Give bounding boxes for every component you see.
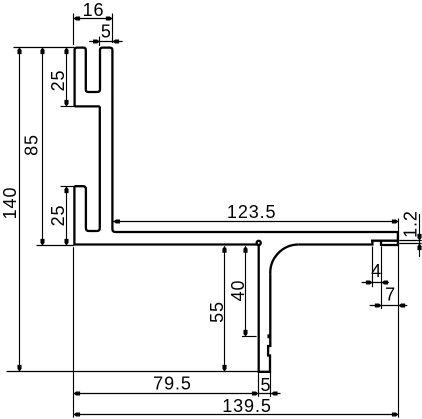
dimension 25 (upper fork depth) bbox=[48, 48, 69, 107]
extension line: above left prong bbox=[73, 14, 75, 46]
svg-text:79.5: 79.5 bbox=[153, 373, 192, 393]
profile: left prong shoulder bbox=[75, 105, 100, 107]
extension line: lower prong top tail bbox=[61, 186, 75, 188]
profile: junction circle at bar top-left bbox=[257, 241, 261, 245]
svg-text:25: 25 bbox=[48, 205, 68, 227]
extension line: top reference bbox=[14, 47, 75, 49]
svg-text:40: 40 bbox=[228, 280, 248, 302]
svg-text:4: 4 bbox=[371, 261, 382, 281]
profile: flange bottom (right part) and groove left wall bbox=[299, 241, 373, 245]
svg-text:5: 5 bbox=[261, 375, 272, 395]
svg-text:140: 140 bbox=[0, 187, 20, 220]
svg-text:25: 25 bbox=[48, 70, 68, 92]
extension line: bar left edge down (79.5 / 5) bbox=[258, 372, 260, 397]
dimension 139.5 bbox=[74, 396, 399, 416]
svg-text:85: 85 bbox=[22, 134, 42, 156]
svg-text:55: 55 bbox=[207, 301, 227, 323]
extension line: lip top (1.2) bbox=[399, 240, 421, 242]
extension line: bottom reference (140 / 55) bbox=[7, 371, 259, 373]
extension line: shoulder tail bbox=[61, 106, 77, 108]
profile: stem left edge, lower slot, lower prong top bbox=[74, 106, 99, 231]
extension line: profile left edge down (79.5 / 139.5) bbox=[73, 247, 75, 417]
dimension 79.5 bbox=[74, 373, 259, 395]
dimension 140 bbox=[0, 48, 22, 372]
extension line: groove left edge (4) bbox=[372, 247, 374, 288]
dimension 85 bbox=[22, 48, 45, 246]
dimension 1.2 bbox=[401, 210, 422, 257]
svg-text:139.5: 139.5 bbox=[222, 396, 272, 416]
profile: lip bottom bbox=[381, 244, 398, 246]
svg-text:123.5: 123.5 bbox=[227, 202, 277, 222]
profile: lip left wall bbox=[380, 240, 382, 246]
profile: groove / lip top line bbox=[371, 240, 398, 242]
dimension 5 (bottom bar width) bbox=[259, 375, 281, 396]
svg-text:1.2: 1.2 bbox=[401, 210, 421, 238]
svg-text:16: 16 bbox=[83, 0, 105, 20]
profile: fillet arc joining bar to flange bottom bbox=[270, 244, 298, 274]
dimension 4 bbox=[362, 261, 389, 284]
profile: left face and flange bottom (left part) bbox=[74, 186, 257, 244]
svg-text:7: 7 bbox=[385, 285, 396, 305]
extension line: bar right edge down (5) bbox=[270, 372, 272, 397]
dimension 123.5 bbox=[113, 202, 398, 224]
profile: top fork - left prong, upper slot, right prong, stem right edge, flange top, right end face bbox=[75, 48, 398, 247]
svg-text:5: 5 bbox=[101, 22, 112, 42]
dimension 7 bbox=[370, 285, 408, 308]
extension line: right prong left edge (5) bbox=[99, 37, 101, 47]
dimension 55 bbox=[207, 246, 227, 371]
profile: lower bar - left edge, bottom, right edge with steps bbox=[259, 245, 271, 371]
dimension 40 bbox=[228, 246, 248, 336]
extension line: flange right end down (123.5 / 7 / 139.5) bbox=[398, 219, 400, 418]
extension line: lip bottom (1.2) bbox=[399, 243, 421, 245]
dimension 25 (lower fork depth) bbox=[48, 187, 69, 246]
dimension 16 bbox=[74, 0, 113, 21]
extension line: above right prong bbox=[112, 14, 114, 44]
extension line: flange bottom left tail bbox=[37, 245, 75, 247]
extension line: lip left edge (4 / 7) bbox=[381, 247, 383, 310]
extension line: 40 bottom reference bbox=[242, 336, 257, 338]
profile: small step tick on bar right edge bbox=[269, 336, 271, 339]
dimension 5 (top right prong) bbox=[89, 22, 122, 44]
